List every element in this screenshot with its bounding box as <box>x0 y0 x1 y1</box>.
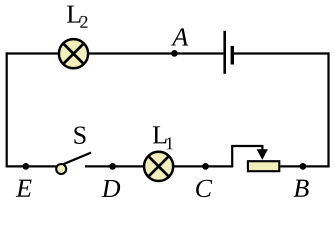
wire bottom-left horizontal (E corner to switch pivot) <box>6 165 57 167</box>
label B <box>294 180 309 197</box>
wire rheostat to right corner (through B) <box>280 165 329 167</box>
rheostat body <box>248 161 279 171</box>
node C (junction dot) <box>202 163 209 170</box>
battery cell: long plate <box>223 31 226 74</box>
label A <box>171 28 188 45</box>
node A (junction dot) <box>171 50 178 57</box>
wire top-middle horizontal (lamp L2 to battery) <box>88 52 223 54</box>
rheostat slider arrow <box>257 145 268 160</box>
wire left vertical (top-left corner down to E corner) <box>6 52 8 167</box>
label C <box>196 180 212 197</box>
node B (junction dot) <box>300 163 307 170</box>
label L2 (letter L) <box>67 6 81 23</box>
battery cell: short thick plate <box>231 46 234 65</box>
wire switch to lamp L1 (through D) <box>85 165 145 167</box>
lamp L1 <box>144 152 173 181</box>
label L1 (letter L) <box>153 126 167 143</box>
wire top-left horizontal (top-left corner to lamp L2) <box>6 52 59 54</box>
lamp L2 <box>59 39 88 68</box>
switch S pivot <box>56 164 66 174</box>
wire rheostat tap horizontal <box>231 145 263 147</box>
wire lamp L1 to rheostat riser (through C) <box>173 165 233 167</box>
wire top-right horizontal (battery to top-right corner) <box>234 52 329 54</box>
label L2 (subscript 2) <box>80 16 87 28</box>
wire rheostat tap riser vertical <box>231 146 233 167</box>
wire right vertical (top-right corner down to B corner) <box>327 52 329 167</box>
node D (junction dot) <box>109 163 116 170</box>
label D <box>101 180 120 197</box>
label S <box>74 126 85 143</box>
label L1 (subscript 1) <box>167 137 173 149</box>
label E <box>16 180 32 197</box>
switch S blade <box>63 153 91 165</box>
node E (junction dot) <box>22 163 29 170</box>
